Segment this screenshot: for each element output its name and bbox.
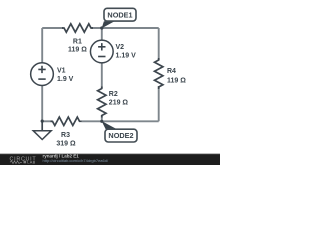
resistor R2: [98, 87, 106, 118]
junction node A (NODE1 junction): [100, 26, 103, 29]
wire top-left horizontal (corner to R1 left): [42, 27, 63, 29]
wire R2 bottom to node B: [101, 115, 103, 121]
wire right vertical lower (R4 bottom to bottom-right corner): [158, 86, 160, 121]
footer bar: [0, 154, 220, 165]
svg-text:R2: R2: [109, 91, 118, 98]
node NODE1 callout: [102, 8, 136, 28]
wire bottom-middle horizontal (node B to R3 right): [82, 120, 102, 122]
wire top-right horizontal (R1 right to node A to top-right corner): [92, 27, 159, 29]
wire V2 bottom to R2 top: [101, 63, 103, 88]
resistor R4: [155, 58, 163, 89]
junction ground node: [41, 120, 44, 123]
svg-text:NODE2: NODE2: [108, 131, 133, 140]
wire left vertical (top-left corner down to V1 top): [41, 28, 43, 63]
node NODE2 callout: [102, 121, 137, 142]
svg-text:1.19 V: 1.19 V: [116, 53, 137, 60]
voltage source V1: [31, 63, 54, 86]
wire right vertical upper (corner to R4 top): [158, 28, 160, 60]
ground: [33, 121, 51, 139]
svg-text:119 Ω: 119 Ω: [68, 46, 87, 53]
svg-text:R4: R4: [167, 68, 176, 75]
svg-text:V2: V2: [116, 44, 125, 51]
svg-text:V1: V1: [57, 68, 66, 75]
svg-text:R3: R3: [61, 132, 70, 139]
svg-text:219 Ω: 219 Ω: [109, 100, 129, 107]
junction node B (NODE2 junction): [100, 120, 103, 123]
svg-text:http://circuitlab.com/c/h74drg: http://circuitlab.com/c/h74drgb7ea6d/: [43, 158, 109, 163]
svg-text:NODE1: NODE1: [107, 10, 132, 19]
wire left vertical lower (ground node up to V1 bottom): [41, 85, 43, 121]
wire bottom-right horizontal (corner to node B): [102, 120, 159, 122]
svg-text:LAB: LAB: [27, 159, 35, 164]
resistor R3: [51, 117, 82, 125]
svg-text:1.9 V: 1.9 V: [57, 76, 74, 83]
wire bottom-left horizontal (R3 left to ground node): [42, 120, 52, 122]
svg-text:319 Ω: 319 Ω: [56, 140, 76, 147]
resistor R1: [62, 24, 93, 32]
footer CircuitLab logo: [10, 156, 37, 164]
voltage source V2: [90, 40, 113, 63]
wire node A to V2 top: [101, 28, 103, 40]
svg-text:R1: R1: [73, 38, 82, 45]
svg-text:119 Ω: 119 Ω: [167, 77, 186, 84]
